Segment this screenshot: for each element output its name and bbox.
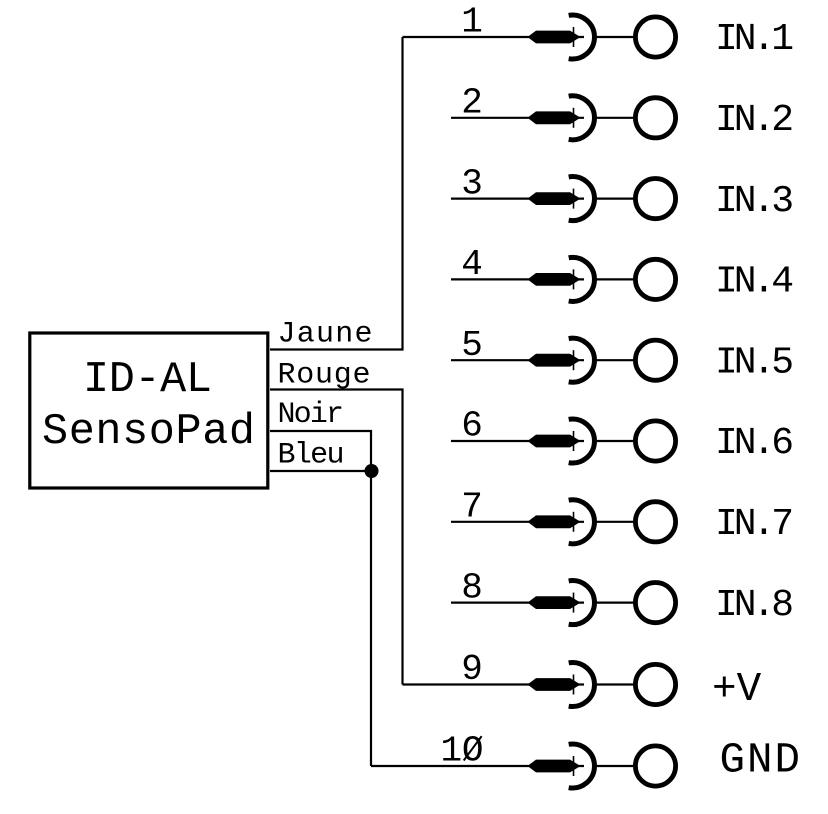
pin 9 lead wire [403,683,585,685]
pin 7 insertion tick [573,512,575,532]
pin 3 ring terminal circle [635,179,675,219]
pin 9 link wire [595,683,634,685]
svg-text:3: 3 [461,163,483,204]
svg-text:SensoPad: SensoPad [42,408,255,457]
svg-text:IN.2: IN.2 [715,99,794,142]
pin 2 ring terminal circle [635,98,675,138]
pin 4 female socket arc [569,257,595,301]
svg-text:Jaune: Jaune [278,318,373,352]
pin 7 ring terminal circle [635,502,675,542]
wire Bleu: box to junction on Noir wire [270,470,371,472]
svg-text:5: 5 [461,325,483,366]
svg-text:GND: GND [720,737,801,785]
pin 7 male terminal bar [528,515,581,528]
pin 8 insertion tick [573,593,575,613]
svg-text:IN.3: IN.3 [715,180,794,223]
pin 4 lead wire [451,278,584,280]
svg-text:1: 1 [461,2,483,43]
svg-text:4: 4 [461,244,483,285]
pin 8 link wire [595,601,634,603]
pin 9 ring terminal circle [635,664,675,704]
svg-text:Bleu: Bleu [278,439,345,473]
svg-text:6: 6 [461,406,483,447]
svg-text:9: 9 [461,649,483,690]
pin 3 lead wire [451,198,584,200]
svg-text:IN.5: IN.5 [715,341,794,384]
pin 9 male terminal bar [528,678,581,691]
box U1 ID-AL SensoPad outline [30,333,268,488]
pin 2 lead wire [451,117,584,119]
svg-text:ID-AL: ID-AL [83,356,212,405]
wire Rouge: box to pin 9 [270,390,403,685]
pin 4 ring terminal circle [635,259,675,299]
svg-text:IN.4: IN.4 [715,261,794,304]
svg-text:7: 7 [461,487,483,528]
svg-text:IN.1: IN.1 [715,18,794,61]
pin 10 female socket arc [569,744,595,788]
pin 10 male terminal bar [528,760,581,773]
pin 2 insertion tick [573,108,575,128]
pin 2 female socket arc [569,96,595,140]
pin 9 female socket arc [569,663,595,707]
svg-text:8: 8 [461,567,483,608]
pin 3 insertion tick [573,189,575,209]
pin 8 female socket arc [569,581,595,625]
pin 5 insertion tick [573,350,575,370]
svg-text:IN.6: IN.6 [715,422,794,465]
pin 3 male terminal bar [528,192,581,205]
pin 5 lead wire [451,359,584,361]
pin 2 male terminal bar [528,111,581,124]
pin 4 male terminal bar [528,273,581,286]
pin 5 ring terminal circle [635,340,675,380]
pin 1 male terminal bar [528,31,581,44]
pin 9 insertion tick [573,675,575,695]
pin 1 insertion tick [573,27,575,47]
pin 6 ring terminal circle [635,421,675,461]
pin 6 link wire [595,440,634,442]
pin 7 female socket arc [569,500,595,544]
pin 1 link wire [595,36,634,38]
junction dot Bleu/Noir [365,464,379,478]
pin 2 link wire [595,117,634,119]
pin 7 link wire [595,521,634,523]
svg-text:1Ø: 1Ø [441,731,484,772]
pin 7 lead wire [451,521,584,523]
pin 4 link wire [595,278,634,280]
pin 10 insertion tick [573,756,575,776]
pin 8 male terminal bar [528,596,581,609]
pin 6 male terminal bar [528,435,581,448]
wire Noir: box to pin 10 [270,431,371,766]
svg-text:IN.8: IN.8 [715,584,794,627]
pin 4 insertion tick [573,269,575,289]
pin 3 link wire [595,198,634,200]
svg-text:Noir: Noir [278,398,345,432]
svg-text:+V: +V [712,667,762,713]
pin 1 female socket arc [569,15,595,59]
pin 1 lead wire [403,36,585,38]
pin 8 lead wire [451,601,584,603]
pin 10 lead wire [371,765,584,767]
pin 10 ring terminal circle [635,746,675,786]
pin 8 ring terminal circle [635,583,675,623]
pin 10 link wire [595,765,634,767]
pin 5 female socket arc [569,338,595,382]
svg-text:2: 2 [461,83,483,124]
wire Jaune: box to pin 1 [270,37,403,350]
pin 6 female socket arc [569,419,595,463]
pin 5 link wire [595,359,634,361]
pin 1 ring terminal circle [635,17,675,57]
pin 6 lead wire [451,440,584,442]
pin 6 insertion tick [573,431,575,451]
svg-text:Rouge: Rouge [278,358,371,392]
svg-text:IN.7: IN.7 [715,503,794,546]
pin 5 male terminal bar [528,354,581,367]
pin 3 female socket arc [569,177,595,221]
